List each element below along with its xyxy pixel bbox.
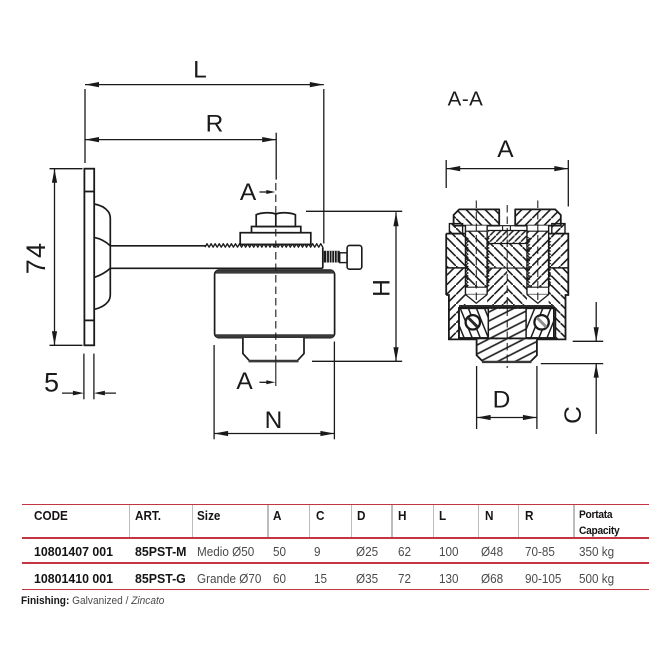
section body outline <box>446 234 568 340</box>
lateral adjusting screw <box>324 245 362 269</box>
upper/lower part divider lines <box>446 267 568 269</box>
svg-text:A: A <box>236 368 253 395</box>
dimension H <box>306 211 402 361</box>
wall plate <box>84 169 94 346</box>
roller (wheel) <box>215 270 335 338</box>
svg-text:A: A <box>497 136 514 163</box>
section body lower-right zone (hatched) <box>507 268 568 339</box>
bolt centerline left <box>475 201 477 303</box>
table header row <box>34 510 68 523</box>
svg-text:A-A: A-A <box>448 88 484 111</box>
table header separators <box>129 505 131 537</box>
dimension 74 <box>50 169 83 346</box>
svg-text:H: H <box>369 279 396 297</box>
top clamp block left (hatched) <box>454 209 500 225</box>
arm / serrated bar <box>110 244 322 269</box>
dimension N <box>214 342 334 440</box>
svg-text:R: R <box>206 111 224 138</box>
dimension L <box>85 85 324 244</box>
table bottom red line <box>22 589 649 591</box>
svg-text:C: C <box>560 406 587 424</box>
section body lower-left zone (hatched) <box>446 268 507 339</box>
screw housing right with slotted set screw <box>526 308 555 337</box>
section body upper-right zone (hatched) <box>507 234 568 268</box>
clamp bolt left (sectioned, threaded) <box>465 226 489 306</box>
dimension A (section width) <box>446 160 568 207</box>
dimension D <box>477 366 537 429</box>
central rack column: washer row + rack strip + nut block <box>488 226 527 268</box>
bell-shaped boss <box>94 204 110 309</box>
table top red line <box>22 504 649 506</box>
svg-text:A: A <box>240 179 257 206</box>
side tab right <box>552 224 565 234</box>
finishing note <box>21 596 164 607</box>
section centerline <box>506 205 508 368</box>
data row 1 <box>34 545 113 558</box>
header bottom red line <box>22 537 649 539</box>
row divider red line <box>22 562 649 564</box>
adjusting nut stack on bar <box>240 213 311 245</box>
dimension R <box>85 133 276 180</box>
bolt centerline right <box>537 201 539 303</box>
svg-text:L: L <box>193 57 207 84</box>
side tab left <box>449 224 462 234</box>
clamp bolt right (sectioned, threaded) <box>527 226 551 306</box>
svg-text:74: 74 <box>21 242 51 274</box>
section body upper-left zone (hatched) <box>446 234 507 268</box>
clamp bar outline <box>459 308 554 339</box>
screw housing left with slotted set screw <box>459 308 488 337</box>
svg-text:N: N <box>265 407 283 434</box>
data row 2 <box>34 572 113 585</box>
clamp bar interior (shallow hatch) <box>459 308 554 339</box>
top clamp block right (hatched) <box>515 209 561 225</box>
center slot (white gap between clamp blocks) <box>499 208 515 226</box>
dark serrated rack strip above clamp bar <box>459 305 554 309</box>
dimension C <box>541 302 603 434</box>
lower hub under roller <box>243 338 304 361</box>
svg-text:5: 5 <box>44 368 59 398</box>
dimension 5 <box>62 354 116 400</box>
svg-text:D: D <box>493 387 511 414</box>
hub (section, hatched) <box>477 339 537 362</box>
centerline of bolt axis (left view) <box>275 183 277 386</box>
